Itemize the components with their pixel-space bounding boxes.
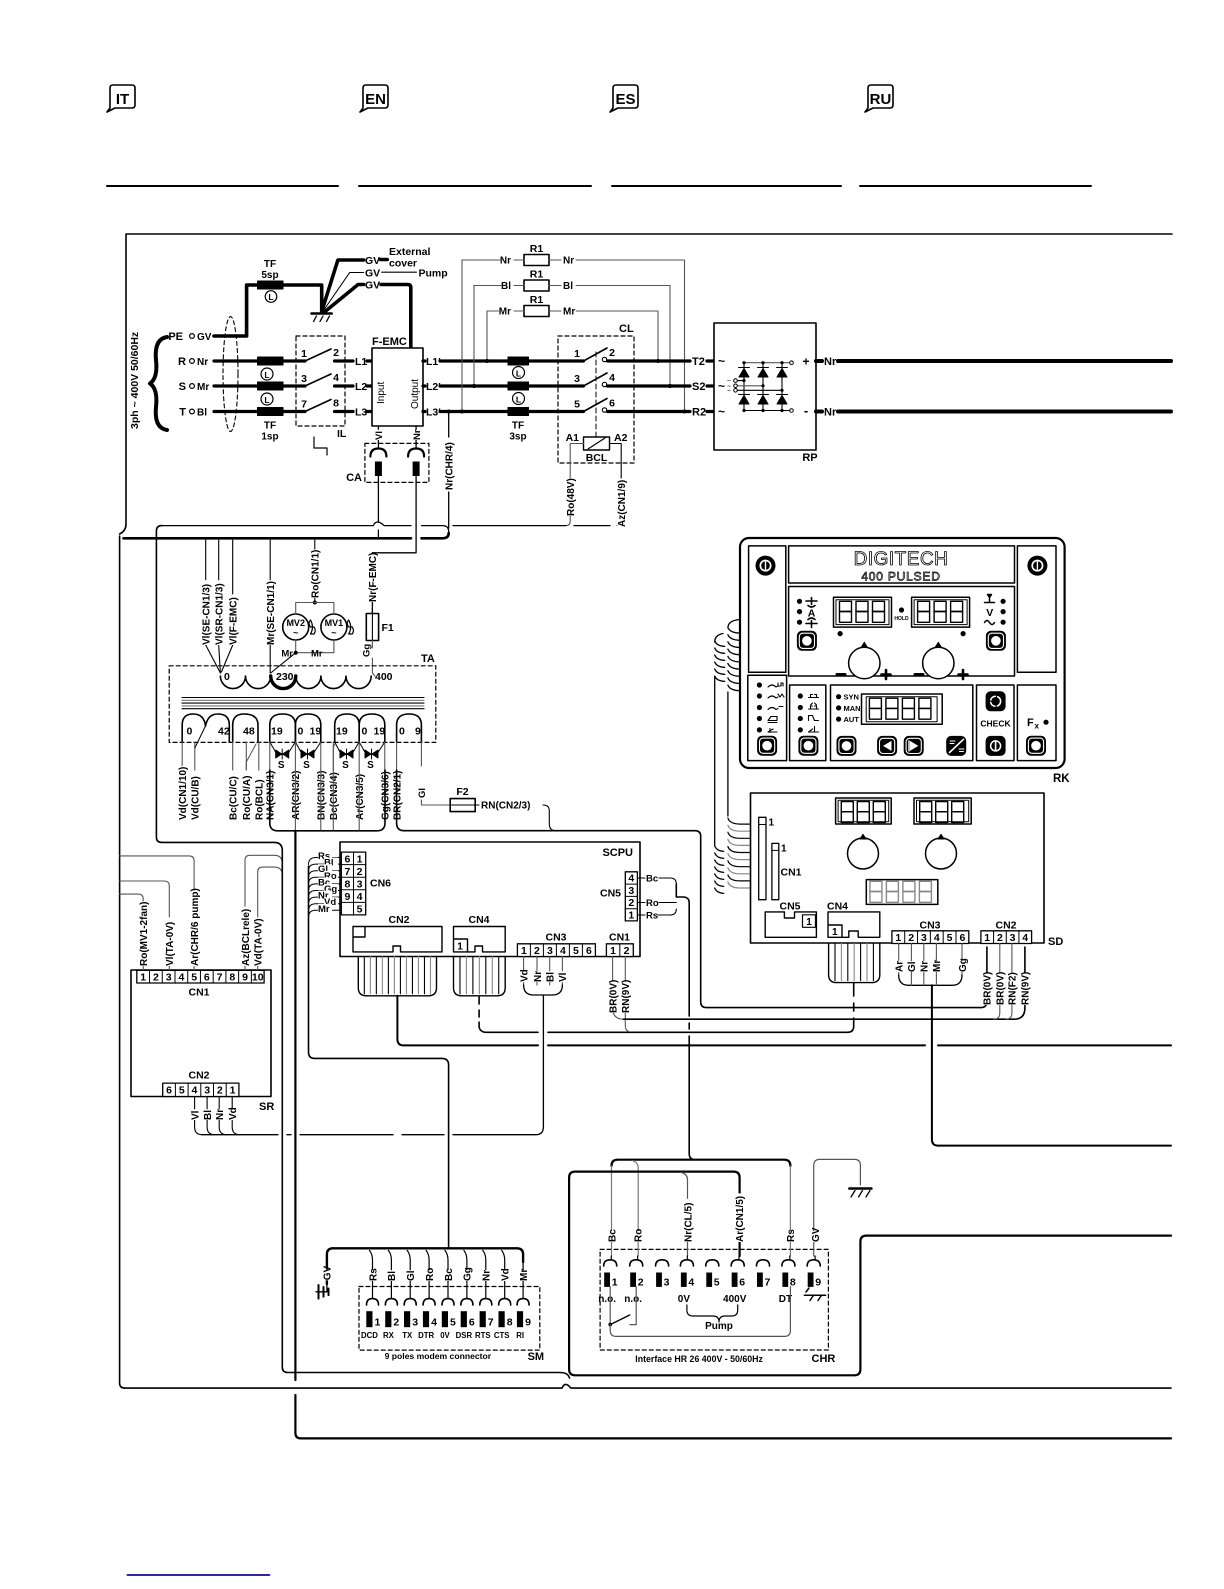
supply brace <box>150 337 167 430</box>
svg-text:Rs: Rs <box>786 1229 797 1242</box>
svg-text:Bl: Bl <box>501 281 511 292</box>
language tag RU <box>865 0 893 112</box>
svg-text:BR(0V): BR(0V) <box>608 980 619 1013</box>
svg-text:1sp: 1sp <box>261 432 278 443</box>
svg-text:Vl: Vl <box>190 1110 201 1120</box>
ribbon cable SD CN4 <box>829 944 880 983</box>
fuse F2 <box>450 799 475 812</box>
svg-text:Az(BCLrele): Az(BCLrele) <box>241 909 252 966</box>
svg-text:V: V <box>986 607 993 619</box>
RP diode column x=763 <box>762 363 764 411</box>
fuse F1 <box>366 614 378 641</box>
svg-text:2: 2 <box>638 1277 644 1289</box>
CHR pin 2 <box>630 1260 643 1266</box>
wire Mr SD-CN3 <box>935 944 937 976</box>
board SR <box>131 970 271 1097</box>
coil BCL <box>584 437 610 450</box>
svg-text:L: L <box>264 370 269 380</box>
label Nr(CHR/4) <box>448 412 450 529</box>
L circle TF3 a <box>513 367 525 379</box>
svg-text:48: 48 <box>243 726 255 738</box>
CHR pin 8 <box>782 1260 795 1266</box>
svg-text:4: 4 <box>431 1317 437 1329</box>
svg-text:CN2: CN2 <box>188 1070 209 1082</box>
svg-text:PE: PE <box>168 331 183 343</box>
harness bus A y=525.6 <box>162 522 610 532</box>
fan blade MV1 <box>347 620 353 634</box>
wire Rs CN6 <box>309 858 342 865</box>
wire Ro(MV1-2fan) <box>120 894 144 970</box>
svg-text:6: 6 <box>586 945 592 957</box>
RK top-left sub panel <box>749 546 786 672</box>
TA secondary winding 0-42 <box>182 714 229 742</box>
svg-text:TF: TF <box>512 421 524 432</box>
svg-text:RN(CN2/3): RN(CN2/3) <box>481 801 530 812</box>
svg-text:Bl: Bl <box>197 408 207 419</box>
svg-text:10: 10 <box>252 972 264 984</box>
svg-text:Bc: Bc <box>444 1268 455 1281</box>
svg-text:5: 5 <box>947 932 953 944</box>
svg-text:CN6: CN6 <box>370 878 391 890</box>
rectifier RP box <box>714 323 816 450</box>
svg-text:TF: TF <box>264 259 276 270</box>
RK Fx button <box>1027 736 1046 755</box>
svg-text:CN2: CN2 <box>995 920 1016 932</box>
svg-text:S: S <box>367 760 374 771</box>
svg-text:RN(9V): RN(9V) <box>621 980 632 1013</box>
wire Nr from F-EMC <box>415 426 417 448</box>
connector SCPU CN5 <box>625 872 637 921</box>
thermal switch S at 307.5 <box>295 742 302 754</box>
svg-text:Pump: Pump <box>705 1321 733 1332</box>
wire Vd(CN1/10) <box>181 742 183 770</box>
svg-text:Vl(SR-CN1/3): Vl(SR-CN1/3) <box>215 583 226 645</box>
svg-text:1: 1 <box>457 942 463 953</box>
CHR n.o. switch <box>609 1287 611 1325</box>
svg-text:2: 2 <box>908 932 914 944</box>
CHR pin 5 <box>706 1260 719 1266</box>
svg-text:R: R <box>178 356 186 368</box>
svg-text:Nr(CHR/4): Nr(CHR/4) <box>445 442 456 490</box>
svg-text:CN1: CN1 <box>609 932 630 944</box>
wire Vl(TA-0V) <box>120 881 170 970</box>
board SCPU <box>340 842 640 957</box>
svg-text:Output: Output <box>410 379 421 409</box>
panel RK outline <box>740 538 1065 768</box>
svg-text:BR(0V): BR(0V) <box>983 972 994 1005</box>
CHR pump bracket <box>687 1305 738 1322</box>
RK knob b <box>923 647 954 678</box>
svg-text:Nr: Nr <box>824 356 837 368</box>
svg-text:7: 7 <box>217 972 223 984</box>
svg-text:-: - <box>804 403 808 418</box>
svg-text:IT: IT <box>116 91 129 108</box>
switch IL dashed box <box>296 336 345 426</box>
svg-text:0: 0 <box>224 671 230 683</box>
svg-text:1: 1 <box>610 945 616 957</box>
svg-text:Interface HR 26 400V - 50/60Hz: Interface HR 26 400V - 50/60Hz <box>635 1354 763 1364</box>
svg-text:Az(CN1/9): Az(CN1/9) <box>617 480 628 527</box>
board SD <box>751 793 1045 943</box>
svg-text:2: 2 <box>628 897 634 909</box>
svg-text:Nr(F-EMC): Nr(F-EMC) <box>368 553 379 602</box>
wire GV to F-EMC <box>325 285 364 313</box>
svg-text:L: L <box>516 368 521 378</box>
wire Nr to F1 <box>372 476 416 614</box>
svg-text:SYN: SYN <box>844 693 859 702</box>
wire AR(CN3/2) <box>294 742 296 770</box>
svg-text:Ro: Ro <box>425 1268 436 1281</box>
svg-text:DIGITECH: DIGITECH <box>854 549 949 570</box>
svg-text:~: ~ <box>293 628 298 638</box>
svg-text:1: 1 <box>230 1085 236 1097</box>
svg-text:6: 6 <box>959 932 965 944</box>
svg-text:1: 1 <box>521 945 527 957</box>
svg-text:2: 2 <box>624 945 630 957</box>
TA secondary winding 269.8-295.4 <box>270 714 296 742</box>
wire PE-GV to ground via TF 5sp <box>214 285 322 336</box>
SM pin 3 (TX) wire Gl <box>407 1250 410 1298</box>
svg-text:TF: TF <box>264 421 276 432</box>
RK main display panel <box>789 587 1015 677</box>
RP phase feed 390.3 <box>737 389 782 391</box>
header rule RU <box>860 185 1091 187</box>
svg-text:SM: SM <box>528 1351 545 1363</box>
RK CHECK panel <box>977 685 1015 761</box>
wire Gg CN6 <box>309 891 342 898</box>
svg-text:Vd: Vd <box>519 969 530 982</box>
svg-text:Ar(CHR/6 pump): Ar(CHR/6 pump) <box>190 888 201 966</box>
svg-text:CN2: CN2 <box>388 914 409 926</box>
CHR pin 6 <box>731 1260 744 1266</box>
CHR pin 4 <box>680 1260 693 1266</box>
svg-text:2: 2 <box>609 347 615 359</box>
wire BR(0V) SCPU-CN1 <box>613 957 624 1020</box>
fan blade MV2 <box>309 620 315 634</box>
svg-text:Gg: Gg <box>958 958 969 972</box>
svg-text:+: + <box>802 355 809 369</box>
harness rail y=1019.2 <box>624 947 1025 1019</box>
filter F-EMC <box>372 348 423 426</box>
svg-text:AUT: AUT <box>844 715 860 724</box>
svg-text:3: 3 <box>628 885 634 897</box>
supply cable grouping oval <box>223 317 238 432</box>
svg-text:7: 7 <box>765 1277 771 1289</box>
svg-text:1: 1 <box>357 853 363 865</box>
header rule IT <box>107 185 338 187</box>
output + Nr line <box>816 359 822 363</box>
svg-text:DCD: DCD <box>361 1331 378 1340</box>
svg-text:400 PULSED: 400 PULSED <box>861 570 940 584</box>
RK button gas/slash <box>947 736 966 755</box>
TA secondary winding 295.4-320.8 <box>295 714 320 742</box>
svg-text:6: 6 <box>166 1085 172 1097</box>
svg-text:1: 1 <box>375 1317 381 1329</box>
svg-text:Vl(TA-0V): Vl(TA-0V) <box>165 922 176 966</box>
svg-text:4: 4 <box>333 372 339 384</box>
coil cable 1 (RK-SD) <box>728 620 740 817</box>
wire Ar(CN3/5) <box>358 742 360 770</box>
inductor TF 3sp row <box>508 382 529 390</box>
wire R1 Bl right <box>576 286 670 387</box>
svg-text:1: 1 <box>984 932 990 944</box>
svg-text:8: 8 <box>507 1317 513 1329</box>
svg-text:Nr: Nr <box>563 256 574 267</box>
svg-text:Bc(CU/C): Bc(CU/C) <box>229 776 240 820</box>
wire Vl SCPU-CN3 <box>561 957 563 986</box>
svg-text:cover: cover <box>389 258 417 270</box>
ribbon cable SCPU CN2 <box>358 957 436 996</box>
svg-text:BN(CN3/3): BN(CN3/3) <box>317 771 328 820</box>
harness TA CN3 bundle <box>270 770 385 831</box>
thermal switch S at 371.5 <box>359 742 366 754</box>
svg-text:CHECK: CHECK <box>980 719 1011 729</box>
harness SCPU CN6 bundle <box>309 866 449 1248</box>
svg-text:9: 9 <box>242 972 248 984</box>
wire SCPU CN4 ribbon down then right <box>479 997 854 1032</box>
connector SCPU CN2 <box>353 927 442 952</box>
wire Az(CN1/9) from BCL A2 <box>610 444 622 526</box>
RK volt icons <box>1001 599 1006 604</box>
node L1 <box>345 359 353 362</box>
ground symbol CHR top <box>849 1187 871 1190</box>
svg-text:Gg(CN3/6): Gg(CN3/6) <box>381 771 392 820</box>
svg-text:GV: GV <box>365 280 380 292</box>
svg-text:CN4: CN4 <box>468 914 489 926</box>
wire Bl CN6 <box>309 864 342 871</box>
svg-text:3: 3 <box>547 945 553 957</box>
connector SD CN3 <box>892 931 969 944</box>
svg-text:Ro(BCL): Ro(BCL) <box>255 779 266 820</box>
wire Rs CN5 <box>637 909 676 915</box>
svg-text:0V: 0V <box>678 1294 691 1305</box>
svg-text:Nr: Nr <box>412 429 423 440</box>
svg-text:L2: L2 <box>355 381 367 393</box>
svg-text:Ro(CN1/1): Ro(CN1/1) <box>311 550 322 598</box>
svg-text:External: External <box>389 246 431 258</box>
svg-text:0: 0 <box>399 726 405 738</box>
wire RN(9V) SCPU-CN1 <box>625 957 630 1033</box>
svg-text:8: 8 <box>344 878 350 890</box>
wire R1 Nr left <box>462 259 524 261</box>
svg-text:1: 1 <box>832 927 838 938</box>
RP phase feed 380.6 <box>737 380 744 382</box>
bottom rail y=1388 <box>125 1384 1171 1388</box>
TA core <box>182 697 424 699</box>
wire Vd SR-CN2 <box>232 1097 240 1135</box>
SM pin 9 (RI) wire Mr <box>519 1270 529 1281</box>
wire BR(CN2/1) <box>396 742 398 770</box>
RP bridge top bus <box>744 362 790 364</box>
svg-text:5: 5 <box>450 1317 456 1329</box>
svg-text:6: 6 <box>469 1317 475 1329</box>
current sensor at 416.1 <box>408 449 424 457</box>
SD display right <box>914 798 971 824</box>
TA secondary winding 396.6-421.4 <box>397 714 422 742</box>
SD connector bar 2 <box>772 843 779 899</box>
L circle of TF 5sp <box>265 291 277 303</box>
svg-text:3: 3 <box>921 932 927 944</box>
svg-text:RI: RI <box>516 1331 524 1340</box>
svg-text:Nr: Nr <box>215 1109 226 1120</box>
svg-text:5: 5 <box>179 1085 185 1097</box>
svg-text:6: 6 <box>344 853 350 865</box>
inductor TF 1sp T <box>258 408 284 416</box>
svg-text:L: L <box>516 394 521 404</box>
TA secondary winding 48 <box>233 714 258 742</box>
wire Bc CN5 <box>637 878 676 884</box>
rail SR-SCPU y=1134.7 <box>202 996 543 1135</box>
svg-text:SCPU: SCPU <box>602 847 633 859</box>
wire Vl continues down <box>377 476 379 538</box>
svg-text:9 poles modem connector: 9 poles modem connector <box>385 1351 492 1361</box>
connector SCPU CN4 <box>454 927 506 952</box>
svg-text:L: L <box>268 292 273 302</box>
svg-text:5: 5 <box>573 945 579 957</box>
RK knob screw right <box>1027 556 1047 576</box>
svg-text:L2': L2' <box>426 381 441 393</box>
svg-text:1: 1 <box>140 972 146 984</box>
svg-text:Ro(48V): Ro(48V) <box>566 478 577 516</box>
SM pin 2 (RX) wire Bl <box>388 1250 391 1298</box>
RK amps display <box>834 597 892 627</box>
svg-text:TA: TA <box>421 653 435 665</box>
wire Ro(CU/A) <box>245 742 247 770</box>
wire Bc(CU/C) <box>232 742 234 770</box>
svg-text:9: 9 <box>415 726 421 738</box>
interface CHR dashed box <box>600 1249 828 1350</box>
language tag ES <box>610 0 638 112</box>
connector SM dashed box <box>359 1287 540 1351</box>
CHR rail 2 (enclosure wire) <box>569 1172 740 1256</box>
svg-text:Ar(CN3/5): Ar(CN3/5) <box>355 774 366 820</box>
svg-text:Mr: Mr <box>499 307 511 318</box>
SD CN3 bundle down <box>899 975 962 985</box>
wire R1 Nr right <box>576 260 685 412</box>
CHR pin9 small ground <box>804 1288 825 1301</box>
svg-text:5: 5 <box>357 904 363 916</box>
svg-text:~: ~ <box>718 405 725 419</box>
svg-text:~: ~ <box>727 388 731 395</box>
node L1' <box>423 359 425 362</box>
RK Fx panel <box>1017 685 1056 761</box>
inductor TF 1sp S <box>258 382 284 390</box>
svg-text:CHR: CHR <box>812 1353 836 1365</box>
svg-text:400: 400 <box>375 671 393 683</box>
transformer TA dashed box <box>169 666 436 743</box>
RK check top button <box>986 692 1005 711</box>
node T2 <box>634 359 690 362</box>
wire Az(BCLrele) <box>245 855 282 970</box>
svg-text:RU: RU <box>870 91 892 108</box>
svg-text:L3: L3 <box>355 407 367 419</box>
svg-text:AR(CN3/2): AR(CN3/2) <box>291 771 302 820</box>
wire Vd(TA-0V) <box>258 867 283 970</box>
connector SD CN2 <box>981 931 1032 944</box>
RK mode icons col2 <box>809 695 819 733</box>
sensor box CA <box>365 443 429 482</box>
SM pin 6 (DSR) wire Gg <box>464 1250 467 1298</box>
svg-text:Mr: Mr <box>318 904 330 915</box>
wire Vd CN6 <box>309 904 342 911</box>
svg-text:BCL: BCL <box>586 452 608 464</box>
wire R1 Bl left <box>474 285 524 287</box>
RK button mode1 <box>758 736 777 755</box>
wire Gl CN6 <box>309 871 342 878</box>
RK amp icons <box>797 599 802 604</box>
wire Nr SCPU-CN3 <box>536 957 538 986</box>
svg-text:IL: IL <box>337 428 347 440</box>
svg-text:Mr(SE-CN1/1): Mr(SE-CN1/1) <box>266 581 277 645</box>
svg-text:Mr: Mr <box>932 960 943 972</box>
wire Bc CN6 <box>309 884 342 891</box>
inductor TF 5sp <box>258 281 284 289</box>
harness rail y=1032.4 <box>630 1031 847 1033</box>
svg-text:Nr: Nr <box>197 357 208 368</box>
RK volts display <box>912 597 970 627</box>
svg-text:L1': L1' <box>426 356 441 368</box>
svg-text:Input: Input <box>376 382 387 404</box>
wire RN(F2) SD-CN2 pin3 <box>1006 944 1012 1020</box>
svg-text:Gl: Gl <box>417 788 428 798</box>
svg-text:Vd: Vd <box>228 1107 239 1120</box>
svg-text:9: 9 <box>344 891 350 903</box>
svg-text:BR(0V): BR(0V) <box>996 972 1007 1005</box>
svg-text:1: 1 <box>806 917 812 928</box>
svg-text:2: 2 <box>393 1317 399 1329</box>
node L2 <box>345 384 353 387</box>
RP bridge bottom bus <box>744 410 790 412</box>
CHR pin 9 <box>807 1260 820 1266</box>
svg-text:R1: R1 <box>530 243 544 255</box>
svg-text:4: 4 <box>609 372 615 384</box>
svg-text:1: 1 <box>301 348 307 360</box>
svg-text:6: 6 <box>204 972 210 984</box>
svg-text:Vd(CN1/10): Vd(CN1/10) <box>178 767 189 820</box>
svg-text:3: 3 <box>664 1277 670 1289</box>
wire Vl(F-EMC) <box>221 540 232 672</box>
motor MV2 <box>283 614 309 640</box>
wire Nr(F-EMC) <box>371 553 373 614</box>
svg-text:Gl: Gl <box>406 1270 417 1281</box>
TA primary bold arc <box>271 676 296 689</box>
thick AR(CN3/2) line down <box>295 831 1171 1439</box>
svg-text:Gg: Gg <box>463 1267 474 1281</box>
svg-text:RK: RK <box>1053 773 1070 785</box>
svg-text:4: 4 <box>1022 932 1028 944</box>
ribbon cable SCPU CN4 <box>454 957 506 996</box>
svg-text:3: 3 <box>574 373 580 385</box>
svg-text:S: S <box>303 760 310 771</box>
svg-text:S: S <box>342 760 349 771</box>
svg-text:F2: F2 <box>456 786 468 798</box>
SM ground GV <box>323 1270 333 1281</box>
svg-text:0V: 0V <box>440 1331 450 1340</box>
svg-text:6: 6 <box>739 1277 745 1289</box>
SD knob at 863 <box>848 838 879 869</box>
svg-text:3: 3 <box>166 972 172 984</box>
svg-text:S2: S2 <box>692 381 705 393</box>
coil cable 2 (RK-SD) <box>715 634 725 894</box>
svg-text:CL: CL <box>619 323 634 335</box>
svg-text:6: 6 <box>609 398 615 410</box>
wire Ar SD-CN3 <box>898 944 900 976</box>
svg-text:SD: SD <box>1048 936 1063 948</box>
svg-text:A2: A2 <box>614 432 628 444</box>
svg-text:Gg: Gg <box>362 644 373 657</box>
svg-text:DTR: DTR <box>418 1331 434 1340</box>
svg-text:F-EMC: F-EMC <box>372 336 407 348</box>
